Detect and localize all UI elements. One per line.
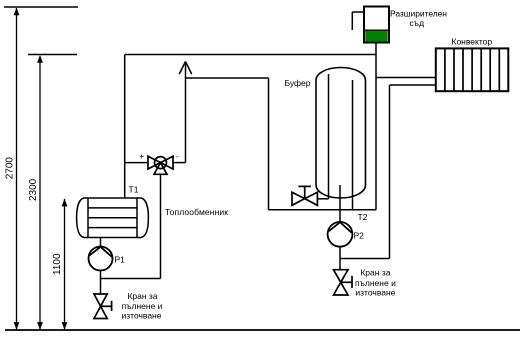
svg-text:-: - (176, 152, 179, 161)
svg-text:съд: съд (410, 18, 425, 28)
svg-text:Кран за: Кран за (127, 291, 157, 301)
svg-text:източване: източване (355, 288, 395, 298)
svg-text:пълнене и: пълнене и (355, 278, 396, 288)
svg-text:P2: P2 (354, 231, 365, 241)
svg-text:Кран за: Кран за (360, 268, 390, 278)
svg-text:Конвектор: Конвектор (452, 37, 493, 47)
svg-text:1100: 1100 (52, 253, 63, 275)
svg-text:2700: 2700 (5, 157, 16, 180)
svg-text:+: + (139, 152, 144, 161)
svg-text:P1: P1 (115, 255, 126, 265)
svg-text:2300: 2300 (28, 178, 39, 201)
svg-text:Топлообменник: Топлообменник (165, 207, 228, 217)
svg-text:Буфер: Буфер (285, 78, 311, 88)
svg-text:пълнене и: пълнене и (122, 301, 163, 311)
svg-text:T1: T1 (129, 185, 139, 195)
svg-text:източване: източване (122, 311, 162, 321)
svg-text:T2: T2 (358, 212, 368, 222)
svg-text:Разширителен: Разширителен (390, 9, 447, 19)
